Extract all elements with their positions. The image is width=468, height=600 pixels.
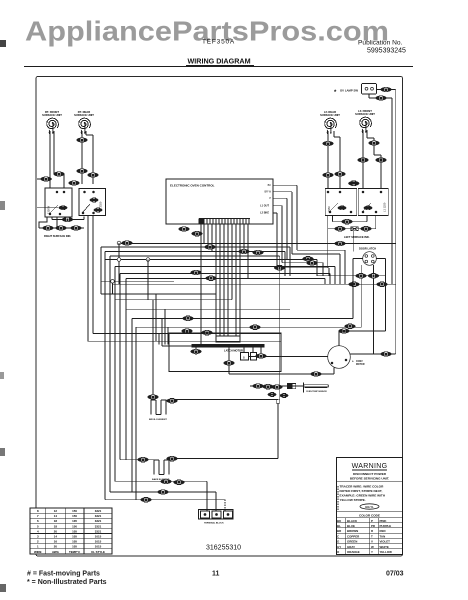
splice connector h15b <box>202 330 213 335</box>
wire bus h6 <box>115 260 335 482</box>
wire bus h2 <box>101 247 290 294</box>
splice connector sensor top <box>274 266 285 271</box>
svg-text:TRACER WIRE: WIRE COLOR: TRACER WIRE: WIRE COLOR <box>340 485 385 489</box>
splice connector latch a <box>356 274 367 279</box>
infinite switch left-rear <box>325 189 357 216</box>
splice connector sensor b <box>263 384 274 389</box>
svg-text:316255310: 316255310 <box>206 545 241 552</box>
svg-text:BROWN: BROWN <box>347 529 358 533</box>
splice connector motor bottom <box>311 372 322 377</box>
splice connector h1a <box>122 241 133 246</box>
splice connector sensor e <box>280 394 288 398</box>
svg-text:L1 1250: L1 1250 <box>383 202 387 212</box>
motor M1 <box>328 346 351 369</box>
splice connector bottom b1 <box>158 490 169 495</box>
wire bottom run b <box>110 492 216 511</box>
svg-text:BL: BL <box>337 524 341 528</box>
svg-text:DOOR LATCH: DOOR LATCH <box>359 247 376 251</box>
splice connector lf-c <box>376 158 387 163</box>
wire sensor left <box>250 385 304 387</box>
wire bus h15 <box>93 333 281 344</box>
splice connector rr-right <box>88 173 99 178</box>
wire gauge table <box>30 508 112 554</box>
splice connector bridge34 <box>342 219 353 224</box>
wire sw2 drops <box>88 216 93 341</box>
splice connector rr-left <box>69 181 80 186</box>
svg-text:COPPER: COPPER <box>347 534 360 538</box>
latch motor relay white box <box>216 336 240 342</box>
wire right-front unit legs <box>37 131 64 188</box>
svg-text:GN-YL: GN-YL <box>365 505 374 509</box>
svg-text:11: 11 <box>212 571 220 578</box>
splice connector h3b <box>253 250 264 255</box>
surface unit left-rear coil <box>325 118 337 134</box>
title underline rule <box>24 66 413 67</box>
svg-text:3321: 3321 <box>95 519 102 523</box>
junction node h5b <box>146 258 150 262</box>
wire bus h14 <box>136 327 362 500</box>
splice connector bridge <box>62 217 73 222</box>
wire motor right <box>350 353 396 355</box>
splice connector latch bar a <box>191 349 202 354</box>
wire ground dotted to block <box>224 500 226 511</box>
splice connector ind-b <box>56 226 67 231</box>
svg-text:P: P <box>371 519 373 523</box>
wire sw3 to sw4 lower bridge <box>328 216 376 229</box>
eoc harness verticals <box>201 224 248 345</box>
svg-text:135: 135 <box>72 519 77 523</box>
svg-text:BLACK: BLACK <box>347 519 358 523</box>
svg-text:BEFORE SERVICING UNIT.: BEFORE SERVICING UNIT. <box>350 476 389 480</box>
splice connector bottom a1 <box>161 479 172 484</box>
splice connector h7a <box>191 270 202 275</box>
svg-text:WHITE: WHITE <box>380 545 389 549</box>
svg-text:GRAY: GRAY <box>347 545 355 549</box>
svg-text:BLUE: BLUE <box>347 524 355 528</box>
svg-text:SURFACE UNIT: SURFACE UNIT <box>355 112 375 116</box>
svg-text:14: 14 <box>54 514 58 518</box>
splice connector h9a <box>349 282 360 287</box>
splice connector h1b <box>205 245 216 250</box>
wire eoc pin bk <box>273 185 345 284</box>
svg-text:18: 18 <box>54 524 58 528</box>
svg-text:105: 105 <box>72 545 77 549</box>
wire bus h8 <box>126 279 325 460</box>
splice connector inside sw4 <box>364 206 372 210</box>
svg-text:18: 18 <box>54 519 58 523</box>
splice connector lr-right <box>335 172 346 177</box>
svg-text:07/03: 07/03 <box>386 571 404 578</box>
splice connector bottom c1 <box>141 497 152 502</box>
wire bottom run a <box>115 481 207 511</box>
splice connector h15a <box>182 329 193 334</box>
wire bus h11 <box>115 300 232 397</box>
svg-text:GY: GY <box>337 545 341 549</box>
svg-text:MOTOR: MOTOR <box>356 364 365 366</box>
svg-text:150: 150 <box>72 509 77 513</box>
splice connector h1c <box>335 241 346 246</box>
svg-text:WIRE: WIRE <box>34 550 42 554</box>
svg-text:YELLOW STRIPE.: YELLOW STRIPE. <box>340 498 366 502</box>
wire bus h16 <box>88 340 281 342</box>
junction node h9 <box>111 280 115 284</box>
splice connector lr-top <box>323 141 334 146</box>
wire bottom run c <box>105 499 225 501</box>
splice connector inside sw2a <box>90 198 98 202</box>
junction box sensor <box>276 400 280 404</box>
svg-text:OVEN TEMP SENSOR: OVEN TEMP SENSOR <box>306 391 327 393</box>
surface unit left-front coil <box>360 117 372 133</box>
splice connector rf-right <box>54 172 65 177</box>
infinite switch right-front <box>45 188 72 217</box>
wire eoc pin l1out <box>273 206 323 276</box>
splice connector lr-low <box>323 173 334 178</box>
oven lamp switch <box>362 84 377 95</box>
splice connector motor right <box>381 352 392 357</box>
terminal block <box>199 510 234 520</box>
splice connector h14a <box>250 325 261 330</box>
svg-text:W: W <box>371 545 374 549</box>
svg-text:BROIL ELEMENT: BROIL ELEMENT <box>149 419 167 421</box>
wire sensor drop <box>279 386 281 400</box>
wire sw3 drop <box>327 229 329 268</box>
splice connector h14b <box>345 324 356 329</box>
wire bus h13 <box>132 318 353 492</box>
splice connector latch bar b <box>256 354 267 359</box>
wire motor top <box>338 331 340 346</box>
svg-text:WIRING DIAGRAM: WIRING DIAGRAM <box>188 57 251 66</box>
latch relay box C <box>251 353 257 361</box>
splice connector motor top <box>339 329 350 334</box>
wire bus h5 <box>105 243 317 284</box>
wire lamp switch to right bus <box>369 90 396 285</box>
svg-text:BK: BK <box>268 184 272 187</box>
wire left-front unit legs <box>363 130 381 189</box>
wire bus h12 <box>126 309 290 344</box>
motor label <box>352 359 365 366</box>
surface unit right-front label <box>42 110 62 117</box>
MAIN SCHEMATIC <box>37 84 396 525</box>
svg-text:ELECTRONIC OVEN CONTROL: ELECTRONIC OVEN CONTROL <box>170 184 215 188</box>
svg-text:105: 105 <box>72 540 77 544</box>
splice connector bake left <box>138 457 149 462</box>
svg-text:RIGHT SURFACE IND.: RIGHT SURFACE IND. <box>44 234 71 238</box>
svg-text:3321: 3321 <box>95 524 102 528</box>
wire eoc pin l2bke <box>273 213 329 276</box>
svg-text:150: 150 <box>72 514 77 518</box>
svg-text:LEFT SURFACE IND.: LEFT SURFACE IND. <box>344 235 370 239</box>
svg-text:3321: 3321 <box>95 529 102 533</box>
splice connector rr-mid <box>77 169 88 174</box>
warning box <box>337 458 403 555</box>
svg-text:1015: 1015 <box>95 535 102 539</box>
wire bake left <box>120 459 148 461</box>
svg-text:COLOR CODE: COLOR CODE <box>359 514 380 518</box>
svg-text:105: 105 <box>72 535 77 539</box>
splice connector inside sw2b <box>94 208 102 212</box>
wire bus h7 <box>120 274 330 460</box>
latch assembly enclosure <box>169 333 281 372</box>
svg-text:1015: 1015 <box>95 540 102 544</box>
splice connector sensor c <box>272 385 283 390</box>
wire bus h10 <box>101 294 216 341</box>
svg-text:20: 20 <box>54 529 58 533</box>
splice connector h13a <box>183 316 194 321</box>
splice connector broil right <box>167 399 178 404</box>
eoc right pin labels <box>260 184 272 215</box>
wire bus h3 <box>105 252 285 500</box>
svg-text:Publication No.: Publication No. <box>358 40 403 47</box>
splice connector latch bar c <box>224 361 235 366</box>
surface unit left-rear label <box>320 110 340 117</box>
svg-text:B: B <box>243 356 245 360</box>
splice connector bake right <box>167 456 178 461</box>
splice connector lf-a <box>358 158 369 163</box>
wire sw1 to sw2 bridge <box>52 217 84 220</box>
splice connector h8a <box>206 276 217 281</box>
svg-text:NOTED FIRST, STRIPE NEXT,: NOTED FIRST, STRIPE NEXT, <box>340 489 383 493</box>
svg-text:GREEN: GREEN <box>347 540 357 544</box>
wire ground dotted right <box>337 486 339 510</box>
svg-text:LATCH MOTOR: LATCH MOTOR <box>224 348 243 352</box>
diagram border frame <box>36 77 403 557</box>
svg-text:3321: 3321 <box>95 509 102 513</box>
splice connector h4a <box>303 257 314 262</box>
wire bus h9 <box>101 281 396 294</box>
splice connector rr-top <box>77 138 88 143</box>
svg-text:20: 20 <box>54 545 58 549</box>
wire latch bar drops <box>196 347 328 374</box>
svg-text:L1 OUT: L1 OUT <box>260 205 269 208</box>
splice connector ind-left a <box>335 226 346 231</box>
splice connector ind-a <box>43 226 54 231</box>
wire motor bottom to bus <box>229 368 334 375</box>
splice connector ind-c <box>71 226 82 231</box>
wire frame to sw1 <box>37 207 58 209</box>
svg-text:3321: 3321 <box>95 514 102 518</box>
svg-text:1015: 1015 <box>95 545 102 549</box>
junction node h5a <box>117 258 121 262</box>
eoc pin strip <box>199 219 250 224</box>
electronic oven control U1 <box>166 179 273 224</box>
splice connector harness a <box>179 227 190 232</box>
svg-text:12: 12 <box>54 509 58 513</box>
oven lamp switch label <box>334 89 358 97</box>
svg-text:PINK: PINK <box>380 519 388 523</box>
svg-text:BR W: BR W <box>264 191 271 194</box>
junction node h1 <box>117 241 121 245</box>
svg-text:14: 14 <box>54 535 58 539</box>
left margin scan marks <box>0 40 6 592</box>
wire eoc pin p <box>273 198 287 259</box>
splice connector bottom a2 <box>174 480 185 485</box>
broil element <box>151 400 166 415</box>
splice connector inside sw1 <box>59 206 67 210</box>
svg-text:WARNING: WARNING <box>352 463 388 470</box>
splice connector lamp wire 2 <box>376 96 387 101</box>
svg-text:RED: RED <box>380 529 386 533</box>
svg-text:150: 150 <box>72 524 77 528</box>
wire eoc pin brw <box>273 192 340 284</box>
svg-text:AWG: AWG <box>52 550 60 554</box>
svg-text:ORANGE: ORANGE <box>347 550 360 554</box>
left indicator lamp box <box>351 227 358 231</box>
svg-text:SURFACE UNIT: SURFACE UNIT <box>42 113 62 117</box>
svg-text:CONV: CONV <box>356 361 363 363</box>
wire bus h1 <box>119 244 396 355</box>
svg-text:YELLOW: YELLOW <box>380 550 393 554</box>
svg-text:UL STYLE: UL STYLE <box>91 550 105 554</box>
splice connector h3a <box>239 249 250 254</box>
latch relay box B <box>241 353 249 361</box>
svg-text:TERMINAL BLOCK: TERMINAL BLOCK <box>204 522 224 525</box>
sensor plug pair <box>288 384 296 389</box>
infinite switch left-front <box>358 189 388 216</box>
surface unit right-front coil <box>47 118 59 134</box>
wire sw3 to sw4 upper bridge <box>333 216 368 222</box>
surface unit right-rear label <box>74 110 94 117</box>
splice connector above left switches <box>348 181 359 186</box>
wire indicator drop <box>353 231 355 252</box>
surface unit left-front label <box>355 109 375 116</box>
splice connector harness b <box>192 231 203 236</box>
svg-text:TEMP°C: TEMP°C <box>69 550 81 554</box>
splice connector sensor a <box>253 384 264 389</box>
svg-text:# = Fast-moving Parts: # = Fast-moving Parts <box>27 571 100 578</box>
svg-text:5995393245: 5995393245 <box>367 48 406 55</box>
wire bus h4 <box>110 256 280 492</box>
svg-text:T: T <box>371 534 373 538</box>
svg-text:Y: Y <box>371 550 373 554</box>
svg-text:OV LAMP SW: OV LAMP SW <box>340 89 358 93</box>
oven sensor flange <box>303 383 305 393</box>
wire element loop <box>172 400 278 459</box>
bake element <box>148 459 172 475</box>
svg-text:TAN: TAN <box>380 534 386 538</box>
wire sw1 to indicator row <box>39 217 84 228</box>
svg-text:PURPLE: PURPLE <box>380 524 392 528</box>
svg-text:16: 16 <box>54 540 58 544</box>
svg-text:V: V <box>371 540 373 544</box>
wire latch switch legs <box>317 259 386 355</box>
splice connector lamp wire 1 <box>381 87 392 92</box>
wire left-rear unit legs <box>328 131 340 189</box>
surface unit right-rear coil <box>79 118 91 134</box>
latch motor bar <box>192 345 264 348</box>
splice connector broil left <box>148 395 159 400</box>
svg-text:SURFACE UNIT: SURFACE UNIT <box>320 113 340 117</box>
splice connector h5c <box>307 261 318 266</box>
splice connector rf-left <box>41 177 52 182</box>
splice connector latch b <box>368 274 379 279</box>
splice connector ind-left b <box>361 226 372 231</box>
svg-text:L2 BKE: L2 BKE <box>260 212 269 215</box>
splice connector inside sw3 <box>338 206 346 210</box>
door latch switch S2 <box>363 252 377 266</box>
splice connector h9b <box>377 282 388 287</box>
svg-text:105: 105 <box>72 529 77 533</box>
svg-text:EXAMPLE: GREEN WIRE WITH: EXAMPLE: GREEN WIRE WITH <box>340 494 386 498</box>
wire latch bar left <box>162 345 192 347</box>
splice connector sensor d <box>268 393 276 397</box>
svg-text:VIOLET: VIOLET <box>380 540 391 544</box>
infinite switch right-rear <box>79 189 106 216</box>
svg-text:TEF350A: TEF350A <box>202 39 235 46</box>
svg-text:* = Non-Illustrated Parts: * = Non-Illustrated Parts <box>27 579 107 586</box>
splice connector lf-b <box>369 141 380 146</box>
svg-text:SURFACE UNIT: SURFACE UNIT <box>74 113 94 117</box>
wire right-rear unit legs <box>69 131 93 184</box>
oven sensor probe <box>304 385 329 388</box>
